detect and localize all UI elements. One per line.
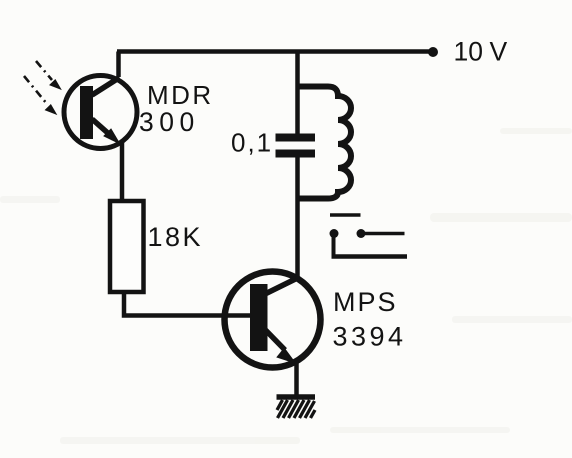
wire contact right lead [363, 232, 405, 236]
wire phototransistor emitter to resistor [120, 143, 125, 200]
wire rail corner to phototransistor collector [116, 52, 121, 78]
svg-text:3394: 3394 [333, 322, 407, 352]
capacitor 0,1 plate top [276, 134, 316, 142]
wire contact left terminal down [332, 235, 336, 255]
transistor Q1 MPS3394 [225, 272, 321, 368]
svg-text:MDR: MDR [147, 80, 214, 110]
wire capacitor to transistor collector [295, 158, 300, 280]
resistor 18K [110, 201, 144, 292]
relay coil K1 [298, 87, 352, 199]
svg-text:MPS: MPS [333, 287, 398, 317]
svg-text:0,1: 0,1 [231, 128, 273, 158]
capacitor 0,1 plate bottom [276, 150, 316, 158]
phototransistor MDR300 [64, 76, 137, 149]
power terminal dot 10V [428, 47, 438, 57]
relay contact left terminal dot [330, 229, 339, 238]
svg-text:10: 10 [454, 37, 483, 67]
wire transistor emitter to ground [294, 361, 299, 396]
wire resistor to transistor base [124, 293, 251, 316]
svg-text:V: V [490, 37, 508, 67]
light arrow 1 [36, 61, 60, 89]
svg-text:18K: 18K [148, 222, 204, 252]
svg-text:300: 300 [139, 107, 200, 137]
light arrow 2 [24, 76, 56, 114]
wire contact bottom lead [332, 254, 408, 259]
wire power rail 10V [117, 49, 433, 54]
wire collector net vertical (rail to capacitor) [295, 50, 300, 134]
relay contact right terminal dot [357, 229, 366, 238]
ground [277, 397, 316, 418]
relay contact armature line [330, 213, 361, 217]
